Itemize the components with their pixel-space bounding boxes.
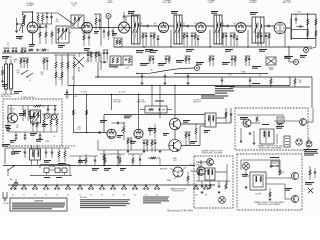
B+ bus right top <box>95 76 312 78</box>
box3 transformer <box>250 172 266 195</box>
V4 screen bypass <box>157 36 160 46</box>
heater V16 <box>203 184 209 196</box>
stage label V4 below <box>145 49 153 52</box>
speaker box3 dashed <box>237 154 302 210</box>
mixer out cluster <box>103 50 109 60</box>
svg-text:V1: V1 <box>12 194 14 196</box>
svg-text:PHONO: PHONO <box>268 67 275 69</box>
heater V15 <box>193 184 199 196</box>
lower label extra1 <box>2 144 21 154</box>
front lower cluster 2 <box>40 58 48 76</box>
heater V12 <box>132 184 138 196</box>
can T2 top label <box>128 11 135 14</box>
box2 connector X <box>219 197 226 204</box>
box1 speaker <box>300 119 307 126</box>
tube V1 RF amplifier <box>27 22 38 33</box>
Q1-Q2 wires <box>175 120 205 146</box>
mains transformer <box>23 145 40 165</box>
lower bus <box>3 165 195 167</box>
front ground bus <box>2 52 100 54</box>
wire bus to B <box>305 46 307 48</box>
det parts 2 <box>231 56 237 66</box>
heater V5 <box>54 184 60 196</box>
heater V4 <box>43 184 49 196</box>
wire T5 to V7 <box>264 25 274 28</box>
PS choke <box>33 105 45 107</box>
dashed partition <box>62 145 76 147</box>
RF tuning coil box L2 <box>56 26 69 43</box>
V3 top cap <box>123 12 130 22</box>
speaker lead note <box>201 96 228 99</box>
right drop resistor 295 <box>294 77 302 87</box>
V3 bias box <box>114 38 122 47</box>
V6 screen <box>236 36 239 46</box>
label V1 6AB4 <box>26 2 34 7</box>
caution box <box>10 198 67 211</box>
svg-text:TP-1: TP-1 <box>114 68 118 70</box>
svg-text:V16: V16 <box>205 194 208 196</box>
box2 left parts <box>198 165 200 181</box>
rect wires <box>190 160 210 171</box>
svg-text:Motorola FM-900: Motorola FM-900 <box>166 209 194 213</box>
heater V13 <box>143 184 149 196</box>
bottom wire 70-100 <box>70 155 98 157</box>
svg-text:Q3 OSC: Q3 OSC <box>9 109 16 111</box>
label x118 y33 <box>112 33 117 36</box>
svg-text:V6: V6 <box>67 194 69 196</box>
heater labels extra <box>104 168 126 171</box>
lower mid wire2 <box>148 157 160 166</box>
wire V3 to T2 <box>130 27 132 29</box>
osc coil box L3 <box>71 15 84 28</box>
node A <box>106 14 111 19</box>
xtra mid caps 188 <box>187 74 190 85</box>
can T3 top label <box>171 11 178 14</box>
wire 114 label <box>124 116 132 119</box>
label under V1 <box>16 36 23 39</box>
svg-text:V15: V15 <box>195 194 198 196</box>
node D <box>195 66 200 71</box>
tone circuit box <box>140 106 172 113</box>
can T5 top label <box>250 12 258 15</box>
aud out label <box>193 100 201 104</box>
right vert 313 <box>311 77 313 108</box>
heater V10 <box>110 184 116 196</box>
svg-text:OUT: OUT <box>173 160 177 162</box>
right margin socket <box>306 138 312 147</box>
pinout caption <box>170 188 187 193</box>
IF bottom bus <box>115 46 312 48</box>
notes block <box>80 197 130 208</box>
IF transformer T4 <box>214 15 222 44</box>
wire V6 to T5 <box>246 25 252 27</box>
V1 mid caps C4 C5 <box>38 24 52 30</box>
box2 transistor <box>207 159 214 166</box>
V1 plate resistors R2 R3 <box>37 13 44 24</box>
box3 caption <box>254 201 284 206</box>
V2 plate cluster <box>94 14 101 30</box>
svg-text:V11: V11 <box>123 194 126 196</box>
V6 grid network <box>220 23 227 46</box>
stage drop V7 <box>284 30 286 47</box>
xtra mid caps 222 <box>221 77 223 87</box>
left edge parts <box>1 66 4 83</box>
alignment box <box>123 56 132 70</box>
bottom extra res 105 <box>104 154 121 166</box>
box1 extra labels <box>240 117 269 125</box>
svg-text:2ND IF: 2ND IF <box>208 2 213 4</box>
lower mid parts <box>128 154 143 166</box>
tube V3 mixer <box>119 22 130 33</box>
wire T4 to V6 <box>222 25 236 28</box>
shield label <box>100 61 123 68</box>
heater V6 <box>65 184 71 196</box>
box1 connector <box>284 136 290 147</box>
box1 title <box>257 144 283 149</box>
corner X connector <box>308 188 313 193</box>
node C <box>294 60 299 65</box>
left label col <box>2 56 22 94</box>
svg-text:LIMITER: LIMITER <box>250 2 257 4</box>
bottom wire 100-130 <box>100 153 125 155</box>
ps label extra2 <box>10 139 43 143</box>
bottom extra caps 80 <box>79 154 87 166</box>
stage label V6 below <box>225 49 233 52</box>
amp label extra2 <box>130 128 155 144</box>
V3 grid parts <box>103 28 114 40</box>
amp label extra1 <box>100 120 123 138</box>
heater V8 <box>88 184 94 196</box>
V1 lower resistors R4 R5 <box>39 30 53 44</box>
antenna coil L1 <box>15 12 26 33</box>
V5 cathode <box>191 23 198 46</box>
line cap 2 <box>24 148 26 158</box>
wire to node D <box>136 68 194 74</box>
line resistors <box>58 148 66 162</box>
heater V7 <box>77 184 83 196</box>
svg-text:FM POSITION: FM POSITION <box>1 96 11 98</box>
output transformer T7 <box>205 113 216 127</box>
line caps <box>45 148 53 158</box>
rectifier tube V8 <box>8 113 18 123</box>
PS filter caps <box>47 105 56 114</box>
node A drop <box>108 19 109 29</box>
svg-text:CAUTION: CAUTION <box>34 199 44 202</box>
aud out sub <box>173 157 177 162</box>
label x104 y20 <box>94 31 99 34</box>
IF transformer T2 <box>132 15 141 44</box>
tube V7 ratio detector <box>274 22 286 34</box>
wire T3 to V5 <box>182 25 196 28</box>
V1 grid wire <box>22 11 33 22</box>
V9 bus drop <box>111 94 112 110</box>
label V2 6X8 <box>71 3 77 7</box>
Motorola model <box>166 209 194 213</box>
B+ connect cap <box>66 89 68 99</box>
right lower bus <box>230 86 310 88</box>
test point box TP1 <box>110 56 121 70</box>
1st audio tube V9 <box>107 129 116 138</box>
svg-text:R40 500K: R40 500K <box>113 100 121 102</box>
box3 transistor <box>243 163 250 170</box>
svg-text:V8: V8 <box>90 194 92 196</box>
tube V5 2nd IF <box>196 23 206 33</box>
box3 labels <box>242 174 292 191</box>
svg-text:1ST IF AMP: 1ST IF AMP <box>162 1 172 4</box>
svg-text:C1: C1 <box>7 45 9 47</box>
coupling cap C40 <box>112 122 125 124</box>
svg-text:RF AMP: RF AMP <box>27 4 34 7</box>
svg-text:B+: B+ <box>259 75 261 77</box>
box2 lower parts <box>201 181 227 189</box>
V3 plate loop wire <box>126 13 138 22</box>
V9B bus drop <box>138 94 139 129</box>
box2 wires <box>196 162 230 194</box>
osc trimmer cross <box>74 53 90 72</box>
svg-text:V2: V2 <box>23 194 25 196</box>
driver bias cluster <box>185 132 191 146</box>
2nd audio tube V9B <box>134 129 143 138</box>
osc padder parts <box>87 52 101 62</box>
svg-text:V4: V4 <box>45 194 47 196</box>
label V4 6BA6 <box>162 0 172 4</box>
svg-text:V10: V10 <box>112 194 115 196</box>
line plug <box>3 192 10 205</box>
wire V1 plate <box>33 28 45 45</box>
svg-text:POWER SUPPLY: POWER SUPPLY <box>21 97 36 99</box>
wire bus to C <box>286 46 295 62</box>
wire L2 to V2 grid <box>69 28 82 33</box>
PS labels <box>15 125 55 143</box>
box1 parts <box>249 117 283 135</box>
lower label extra2 <box>44 160 66 166</box>
corner parts right <box>305 166 316 185</box>
antenna caps row <box>4 48 27 54</box>
ratio detector load ladder <box>291 12 317 40</box>
V5 grid network <box>181 23 188 46</box>
tone control label <box>136 100 145 104</box>
box1 transistor <box>243 119 251 127</box>
power labels mid <box>81 92 126 94</box>
speaker box1 dashed <box>235 108 308 150</box>
band switch S1 <box>21 70 33 82</box>
box1 socket <box>296 139 302 145</box>
base label <box>167 179 171 182</box>
right vert 290 <box>289 77 291 86</box>
stage drop V5 <box>209 30 210 48</box>
box1 wires <box>237 115 300 145</box>
can T4 top label <box>211 11 218 14</box>
box1 terminal strip <box>276 117 284 129</box>
xfmr out wires <box>216 108 231 123</box>
PS bottom caps <box>15 132 42 140</box>
svg-text:V12: V12 <box>134 194 137 196</box>
tube V2 oscillator <box>82 22 93 33</box>
phono conn note <box>215 86 235 94</box>
right label rd <box>284 55 307 59</box>
stage label V7 below <box>259 49 267 52</box>
right drop resistor 271 <box>270 77 272 87</box>
power supply title <box>21 97 36 99</box>
svg-text:EMITTER: EMITTER <box>160 169 168 171</box>
box3 speaker B <box>291 195 298 202</box>
tube V6 limiter <box>236 23 246 33</box>
svg-text:VOL CONT: VOL CONT <box>113 102 121 104</box>
top feed wire <box>36 12 73 24</box>
audio cluster 1 <box>127 138 133 150</box>
xtra parts under bus 186 <box>185 56 191 64</box>
label x60 y46 <box>58 45 65 48</box>
PS mid parts <box>32 118 38 132</box>
mid drop 101b <box>100 53 102 70</box>
V6 cathode <box>230 23 237 46</box>
xtra mid caps 165 <box>164 74 167 85</box>
heater bus <box>8 184 215 186</box>
shield corner wire <box>97 62 98 78</box>
right margin note <box>304 149 318 156</box>
B+ dropping resistors <box>54 55 76 86</box>
PS out labels <box>65 96 77 98</box>
V4 grid network <box>139 23 147 46</box>
svg-text:B+ 250V: B+ 250V <box>81 92 88 94</box>
tube V4 1st IF <box>159 23 169 33</box>
heater V1 <box>10 184 16 196</box>
wire to node B <box>309 39 316 49</box>
heater V14 <box>154 184 160 196</box>
under-IF smudges <box>136 50 158 53</box>
bus drop 175 <box>174 85 175 119</box>
amp label extra3 <box>163 120 190 136</box>
AVC bus mid <box>64 94 215 96</box>
mains top wire <box>5 148 70 164</box>
feedback resistor <box>195 124 197 140</box>
svg-text:V5: V5 <box>56 194 58 196</box>
lower label extra3 <box>78 160 99 171</box>
collector label <box>189 165 200 167</box>
svg-text:MIXER: MIXER <box>107 2 113 4</box>
label V5 6BA6 <box>207 0 214 4</box>
wire V5 to T4 <box>206 25 214 27</box>
ps interior labels <box>6 113 48 136</box>
audio labels <box>0 0 1 1</box>
wire V4 to T3 <box>169 25 175 27</box>
xtra parts under bus 150 <box>149 56 155 64</box>
antenna series parts <box>28 49 49 51</box>
audio cluster 3 <box>151 140 157 152</box>
ps label extra1 <box>5 116 35 128</box>
label 6X8 <box>107 0 113 4</box>
V2 V3 coupling wire <box>92 27 118 28</box>
audio takeoff bus <box>174 73 268 75</box>
amp input wire <box>104 115 205 133</box>
de-emphasis <box>245 56 251 66</box>
box2 transformer <box>205 168 215 180</box>
mid label row2 <box>196 62 261 69</box>
svg-text:V9: V9 <box>101 194 103 196</box>
volume pot <box>121 122 125 140</box>
input lab <box>7 43 9 47</box>
heater V11 <box>121 184 127 196</box>
svg-text:LOW IMP: LOW IMP <box>255 193 261 195</box>
line voltage note <box>143 197 169 204</box>
ratio det transformer T5 <box>252 17 264 43</box>
power supply enclosure <box>3 99 62 146</box>
stage drop V4 <box>143 30 171 48</box>
bottom extra caps 95 <box>94 156 96 166</box>
V2 cathode parts <box>82 33 91 46</box>
tuner trimmer circles <box>45 114 57 120</box>
PS bottom rail <box>8 131 57 133</box>
svg-text:B+: B+ <box>151 70 153 72</box>
label V7 6AL5 <box>283 0 292 4</box>
stage drop V6 <box>247 30 248 48</box>
detector load parts <box>209 56 215 66</box>
box1 chassis wire <box>307 108 314 122</box>
phono jack <box>266 57 276 71</box>
box1 transformer <box>260 129 274 144</box>
mid label row1 <box>140 60 184 66</box>
svg-text:NOTES:: NOTES: <box>80 197 88 199</box>
PS transformer <box>23 106 29 122</box>
heater V9 <box>99 184 105 196</box>
osc coil hatched box <box>31 110 41 123</box>
box3 speaker A <box>291 172 298 179</box>
box3 wires <box>241 160 291 199</box>
svg-text:40: 40 <box>16 127 18 129</box>
wire T2 to V4 <box>140 25 159 28</box>
V4 cathode network <box>150 23 157 46</box>
wire box to V2 <box>83 22 85 26</box>
bus labels right <box>241 70 261 84</box>
box2 title <box>201 149 223 154</box>
svg-text:V3: V3 <box>34 194 36 196</box>
interlock loop <box>30 165 72 178</box>
front bus drop 68 <box>67 53 69 70</box>
PS resistors row <box>42 114 59 132</box>
box3 terminal strip <box>271 161 279 167</box>
audio cluster 2 <box>143 140 149 152</box>
vertical wire x101 <box>100 14 102 46</box>
xtra parts under bus 166 <box>165 56 171 64</box>
V9B right caps <box>149 124 156 138</box>
svg-text:V13: V13 <box>145 194 148 196</box>
B+ label <box>151 70 232 77</box>
amp label extra4 <box>190 130 210 144</box>
amp grid wire <box>73 127 107 134</box>
svg-text:300: 300 <box>14 61 17 63</box>
svg-text:V14: V14 <box>156 194 159 196</box>
ratio filter <box>265 33 271 46</box>
svg-text:RATIO DET: RATIO DET <box>283 1 292 4</box>
amp to lower bus drops <box>103 150 119 166</box>
B+ bus mid <box>68 85 290 87</box>
front lower cluster 1 <box>16 58 28 74</box>
heater V3 <box>32 184 38 196</box>
dial lamp <box>11 148 14 155</box>
driver transistor Q1 <box>169 118 180 129</box>
V1 values <box>19 19 60 41</box>
IF transformer T3 <box>174 15 182 44</box>
rect label <box>198 163 204 165</box>
V7 load network <box>255 23 262 46</box>
node B <box>304 48 309 53</box>
wires into box1 <box>225 112 232 123</box>
svg-text:B+ 105V: B+ 105V <box>119 92 126 94</box>
transistor bottom view <box>173 167 183 177</box>
xtra mid caps 250 <box>249 77 251 87</box>
wire V7 to bridge <box>286 18 291 40</box>
speaker box2 dashed <box>194 156 233 208</box>
